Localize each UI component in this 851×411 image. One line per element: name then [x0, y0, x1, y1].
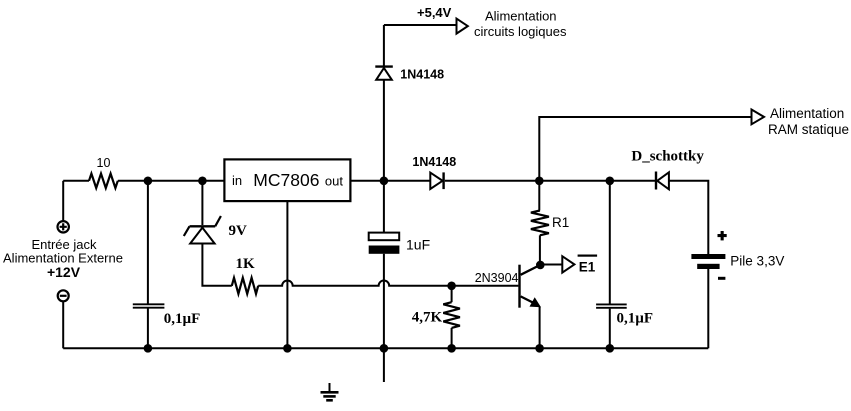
node dot top wire at zener branch — [198, 177, 207, 186]
capacitor 1uF electrolytic bottom plate — [369, 246, 400, 254]
resistor R1 — [531, 211, 549, 236]
wire diode D2 to schottky — [445, 180, 656, 182]
svg-text:9V: 9V — [229, 223, 248, 239]
wire capacitor C-left branch upper — [147, 181, 149, 304]
capacitor 0,1uF left — [133, 304, 165, 307]
svg-text:+12V: +12V — [47, 264, 81, 280]
node dot main wire at 1uF branch — [380, 177, 389, 186]
wire schottky to battery corner — [669, 181, 708, 254]
svg-text:E1: E1 — [579, 260, 596, 275]
wire resistor to regulator box — [118, 180, 225, 182]
node dot mid rail at 4,7K — [447, 282, 456, 291]
wire bottom rail — [63, 347, 708, 349]
svg-text:4,7K: 4,7K — [412, 310, 443, 326]
wire vertical +5.4V branch with 1uF below — [383, 25, 385, 382]
svg-text:10: 10 — [97, 156, 111, 170]
wire right cap branch lower — [609, 309, 611, 349]
output arrow alimentation RAM statique — [752, 110, 765, 125]
svg-text:1uF: 1uF — [406, 237, 430, 253]
zener diode 9V — [190, 225, 216, 227]
wire left vertical down to plus terminal — [62, 181, 64, 221]
svg-text:1N4148: 1N4148 — [400, 68, 444, 82]
node dot top wire at cap branch — [144, 177, 153, 186]
wire zener bottom to 1K — [202, 245, 231, 286]
node dot main wire at right cap branch — [606, 177, 615, 186]
node dot collector junction — [536, 261, 545, 270]
diode D2 1N4148 horizontal — [430, 173, 442, 189]
transistor Q1 2N3904 — [518, 265, 520, 308]
svg-text:+5,4V: +5,4V — [417, 5, 452, 20]
battery Pile 3,3V plus sign — [718, 234, 727, 237]
wire right cap branch upper — [609, 181, 611, 304]
jack minus terminal — [58, 290, 69, 301]
output arrow E1 — [562, 256, 574, 272]
regulator U1 MC7806 — [224, 159, 350, 201]
output arrow alimentation circuits logiques — [457, 19, 468, 34]
svg-text:0,1µF: 0,1µF — [617, 310, 654, 326]
ground — [329, 383, 331, 392]
node dot bottom rail at emitter — [535, 344, 544, 353]
node dot bottom rail at 1uF branch — [380, 344, 389, 353]
svg-text:Alimentation: Alimentation — [485, 9, 557, 24]
wire regulator out to diode D2 — [350, 180, 430, 182]
wire 4,7K lower stub — [451, 328, 453, 348]
wire R1 lower stub — [539, 235, 541, 265]
svg-text:MC7806: MC7806 — [253, 170, 319, 190]
svg-text:D_schottky: D_schottky — [631, 149, 704, 165]
svg-text:1K: 1K — [236, 256, 256, 272]
svg-text:circuits logiques: circuits logiques — [474, 24, 567, 39]
wire to E1 arrow — [540, 264, 562, 266]
svg-text:in: in — [232, 173, 242, 188]
svg-text:0,1µF: 0,1µF — [164, 311, 201, 327]
wire regulator ground pin down to bottom rail — [286, 201, 288, 348]
wire to +5,4V arrow — [384, 24, 456, 26]
wire top-left horizontal from jack to resistor 10 — [63, 180, 89, 182]
capacitor 0,1uF right — [596, 304, 627, 307]
node dot bottom rail at regulator ground — [283, 344, 292, 353]
resistor 4,7K — [443, 302, 460, 328]
diode D1 1N4148 vertical — [375, 65, 393, 67]
wire R1 upper stub — [538, 181, 540, 211]
node dot bottom rail at 4,7K — [447, 344, 456, 353]
node dot bottom rail at cap branch — [144, 344, 153, 353]
node dot main wire at R1 branch — [535, 177, 544, 186]
wire zener branch upper — [201, 181, 203, 225]
wire capacitor C-left branch lower — [147, 309, 149, 349]
svg-text:out: out — [325, 174, 343, 189]
label E1 with overline — [578, 255, 598, 257]
wire 4,7K upper stub — [451, 286, 453, 302]
svg-text:Pile 3,3V: Pile 3,3V — [730, 254, 784, 269]
wire minus terminal down to bottom rail — [62, 301, 64, 348]
battery minus sign — [718, 277, 725, 280]
wire up and right to RAM arrow — [539, 117, 751, 181]
jack plus terminal — [58, 221, 69, 232]
resistor 10 — [89, 174, 118, 188]
svg-text:1N4148: 1N4148 — [412, 155, 456, 169]
battery Pile 3,3V plates — [691, 254, 725, 259]
resistor 1K — [232, 278, 258, 294]
capacitor 1uF electrolytic top plate — [369, 233, 400, 241]
wire emitter down to bottom rail — [539, 307, 541, 349]
svg-text:2N3904: 2N3904 — [475, 271, 519, 285]
diode D3 D_schottky — [655, 172, 657, 190]
wire battery to bottom rail — [707, 269, 709, 348]
svg-text:R1: R1 — [552, 215, 569, 230]
wire mid rail from 1K to transistor base with hops — [258, 280, 518, 285]
node dot bottom rail at right cap — [606, 344, 615, 353]
svg-text:RAM statique: RAM statique — [768, 122, 849, 137]
svg-text:Alimentation: Alimentation — [770, 106, 844, 121]
